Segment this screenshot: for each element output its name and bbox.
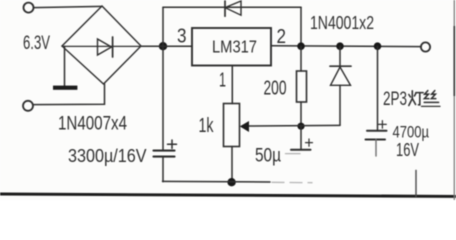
capacitor C3 bottom plate — [366, 139, 386, 141]
wire top rail drop to output rail — [300, 7, 302, 46]
svg-text:3300µ/16V: 3300µ/16V — [68, 145, 147, 166]
node C junction dot — [336, 42, 344, 50]
wire J2 to bridge bottom vertex — [33, 84, 104, 105]
op-amp regulator U1 LM317 box — [192, 28, 271, 66]
ground wire — [64, 46, 66, 85]
svg-text:2P3: 2P3 — [383, 89, 407, 110]
node B junction dot — [297, 42, 305, 50]
potentiometer wiper line — [248, 124, 340, 127]
capacitor C1 bottom lead — [162, 158, 164, 182]
wire bottom rail — [163, 180, 271, 183]
resistor R1 200 ohm lead top — [300, 46, 302, 71]
capacitor C1 plus sign — [168, 140, 177, 148]
wire riser node A to top rail — [162, 7, 164, 46]
capacitor C3 top plate — [367, 130, 387, 132]
diode D1 triangle pointing left — [225, 1, 241, 15]
bridge internal diode triangle — [98, 39, 112, 55]
label dengsi (filament) glyph 丝 underlined — [422, 91, 441, 107]
terminal J1 (AC input top) — [24, 3, 34, 13]
capacitor C2 plus sign — [306, 139, 313, 146]
capacitor C3 bottom stem — [375, 140, 377, 157]
svg-text:1N4007x4: 1N4007x4 — [58, 114, 127, 135]
svg-text:1N4001x2: 1N4001x2 — [310, 12, 374, 33]
stray vertical mark bottom right — [415, 170, 417, 197]
wire bottom rail faint continuation — [272, 181, 312, 183]
svg-text:6.3V: 6.3V — [23, 32, 50, 54]
potentiometer RP1 1k body — [224, 104, 240, 147]
svg-text:3: 3 — [177, 26, 187, 48]
capacitor C3 4700u top lead — [377, 46, 379, 130]
svg-text:50µ: 50µ — [255, 145, 281, 166]
potentiometer bottom lead — [231, 147, 233, 183]
diode D2 bottom lead to ADJ node — [339, 85, 341, 125]
bridge rectifier 1N4007x4 diamond — [62, 6, 141, 84]
page right rule dark segment — [453, 26, 455, 96]
node E junction dot (ADJ node) — [297, 123, 304, 130]
capacitor C2 top plate — [291, 149, 311, 151]
node D junction dot — [374, 42, 382, 50]
wire bridge to LM317 pin3 — [141, 45, 192, 47]
capacitor C2 50u top lead — [300, 126, 302, 149]
resistor R1 200 ohm body — [297, 71, 307, 102]
diode D1 cathode bar (protection diode on top rail) — [224, 1, 226, 16]
diode D2 cathode bar — [330, 65, 351, 67]
node A junction dot (rectifier output) — [159, 42, 167, 50]
terminal J3 (output) — [421, 42, 430, 51]
svg-text:LM317: LM317 — [212, 36, 257, 56]
svg-text:2: 2 — [277, 26, 287, 48]
svg-text:200: 200 — [264, 77, 287, 99]
bridge internal diode horizontal lead — [62, 45, 141, 47]
svg-text:1k: 1k — [199, 115, 215, 137]
capacitor C1 bottom plate — [154, 156, 175, 158]
node F junction dot (bottom rail) — [227, 178, 235, 186]
resistor R1 lead bottom — [300, 102, 302, 127]
label dengsi (filament) glyph 灯 — [409, 91, 423, 106]
page right rule — [453, 0, 455, 200]
capacitor C2 faint bottom plate — [286, 153, 301, 155]
svg-text:16V: 16V — [396, 140, 419, 160]
wire top rail — [163, 6, 301, 8]
pin 1 wire (ADJ) — [231, 66, 233, 104]
diode D2 triangle pointing up — [331, 67, 351, 85]
ground bar — [53, 86, 77, 90]
capacitor C3 plus sign — [379, 121, 387, 129]
svg-text:1: 1 — [219, 69, 226, 91]
page bottom rule — [0, 194, 456, 196]
bridge internal diode cathode bar — [112, 37, 114, 57]
diode D2 top lead (from output rail) — [339, 46, 341, 66]
capacitor C1 top plate — [154, 150, 175, 152]
wire output rail pin2 — [271, 45, 421, 48]
capacitor C1 3300u/16V top lead — [162, 46, 164, 150]
wire J1 to bridge top vertex — [34, 6, 102, 7]
svg-text:4700µ: 4700µ — [393, 123, 430, 142]
potentiometer wiper arrow — [240, 121, 249, 132]
terminal J2 (AC input bottom) — [23, 101, 33, 111]
